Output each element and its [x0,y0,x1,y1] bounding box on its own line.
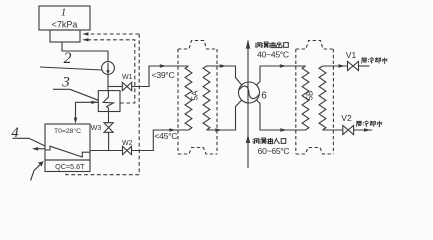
controller box 1 [39,6,90,30]
svg-text:V1: V1 [346,50,357,60]
svg-text:60~65°C: 60~65°C [258,146,290,156]
valve W3 [104,123,113,128]
tank left outlet arrow [34,148,45,150]
svg-text:W2: W2 [122,140,133,147]
wire to valve W1 [108,86,122,88]
oil outlet arrow [246,39,250,48]
wire W3 to tank outlet line [108,132,110,150]
svg-text:<45°C: <45°C [154,131,177,141]
tank capacity sub-box [45,160,90,172]
valve V2 [343,125,348,134]
flow arrow 45C [169,128,176,132]
signal dashed tank to controller [66,34,139,175]
wire down into tank 4 [75,102,77,122]
svg-text:W1: W1 [122,74,133,81]
cooler 5A oil coil [203,66,210,130]
cooler 5A water coil [185,66,192,130]
tank box 4 [45,124,90,160]
svg-text:1: 1 [61,7,67,19]
svg-text:5A: 5A [191,90,200,100]
valve W1 [122,82,127,90]
cooler 5B water coil [319,66,326,130]
wire 5A top to valve 6 [207,66,242,85]
cooler 5B dashed casing [296,41,334,155]
wire pump to filter [107,74,109,90]
wire tank to valve W2 [90,150,123,152]
wire 5A bottom to valve 6 [207,100,242,130]
text cooling water (top right) [361,57,387,63]
LABELS-TEXT [11,7,356,172]
svg-text:3: 3 [61,75,70,91]
pump 2 [102,62,115,75]
signal dashed filter to controller [84,40,135,103]
text lube oil inlet (bottom) [253,138,286,144]
leader line 2 [40,67,102,70]
leader line 3 [53,89,99,100]
svg-text:6: 6 [261,91,267,102]
cooler 5B oil coil [302,66,309,130]
weir inside tank [45,146,90,157]
three-way valve 6 [239,82,260,103]
wire 5B to valve V1 [323,65,348,67]
svg-text:W3: W3 [91,125,102,132]
wire valve 6 to 5B top [256,66,305,85]
text lube oil outlet (top) [255,42,288,48]
valve V1 [348,61,354,70]
leader line 4 [13,138,46,146]
svg-text:5B: 5B [306,91,315,101]
wire V1 out [359,65,370,67]
svg-text:<7kPa: <7kPa [52,20,78,30]
valve W2 [123,146,128,154]
wire valve 6 to 5B bottom [256,100,305,130]
lube oil main line [247,41,249,169]
wire 5B to valve V2 [323,129,343,131]
cooler 5A dashed casing [178,41,217,155]
inlet arrow into box 3 [76,101,99,103]
svg-text:T0=28°C: T0=28°C [54,127,81,135]
oil inlet flow arrow [246,134,250,143]
svg-text:<39°C: <39°C [152,70,175,80]
controller sub-box [50,30,80,42]
wire V2 out [354,129,373,131]
wire filter to valve W3 [108,112,110,123]
svg-text:V2: V2 [341,113,352,123]
flow arrow 39C [160,64,167,68]
wire W1 to cooler 5A top [132,66,189,87]
text cooling water (bottom right) [356,121,382,127]
filter box 3 [98,91,120,112]
wire controller to pump [62,42,108,62]
svg-text:2: 2 [64,50,72,67]
leader arrow to tank corner [31,164,41,181]
svg-text:QC=5.6T: QC=5.6T [55,162,85,171]
wire W2 to cooler 5A bottom [132,130,189,151]
svg-text:40~45°C: 40~45°C [257,50,289,60]
svg-text:4: 4 [11,125,19,141]
